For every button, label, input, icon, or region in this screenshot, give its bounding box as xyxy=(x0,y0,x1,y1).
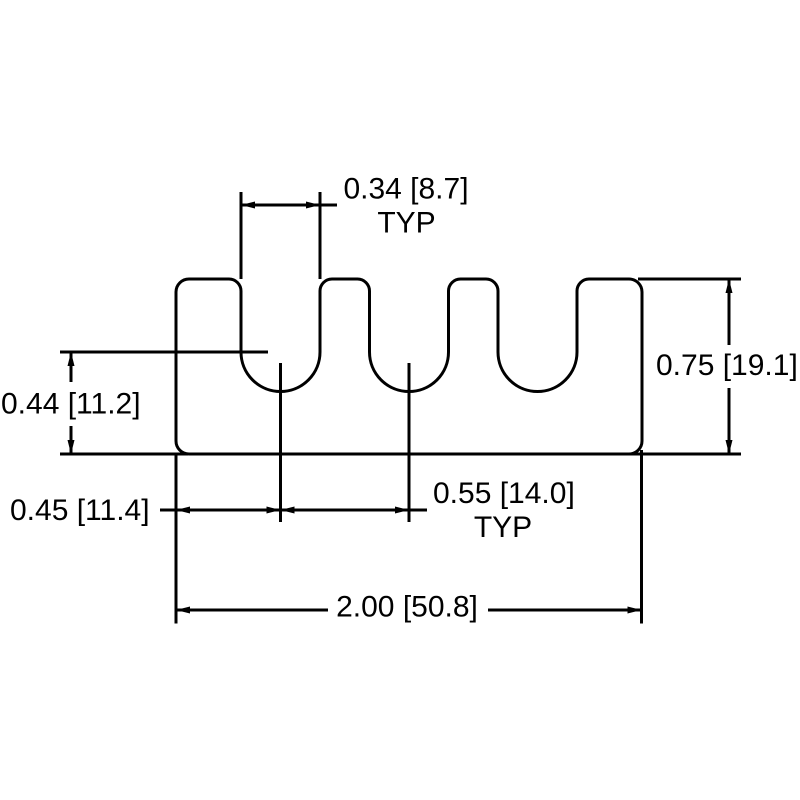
dim 0.75 value text xyxy=(656,349,798,382)
dim 0.44 reference line top (slot depth line) xyxy=(60,351,268,354)
dim 0.75 arrow down xyxy=(726,440,733,454)
dim 2.00 arrow left xyxy=(176,607,190,614)
dim 2.00 extension line right xyxy=(640,450,643,624)
svg-text:0.75 [19.1]: 0.75 [19.1] xyxy=(656,349,798,382)
dim 0.44 dimension line lower segment xyxy=(70,426,73,454)
dim 0.44 reference line bottom xyxy=(60,453,188,456)
part outline: comb spacer with three U slots xyxy=(176,279,642,454)
dim 0.34 value text xyxy=(343,173,468,206)
dim 0.44 dimension line upper segment xyxy=(70,352,73,382)
dim 0.75 arrow up xyxy=(726,279,733,293)
dim 0.45 value text xyxy=(10,494,150,527)
svg-text:0.45 [11.4]: 0.45 [11.4] xyxy=(10,494,150,527)
dim 0.44 arrow up xyxy=(68,352,75,366)
dim 0.55 arrow left xyxy=(281,507,295,514)
svg-text:0.34 [8.7]: 0.34 [8.7] xyxy=(343,173,468,206)
dim 0.75 dimension line lower segment xyxy=(728,388,731,454)
dim 0.45 arrow left xyxy=(176,507,190,514)
dim 2.00 dimension line right segment xyxy=(488,609,642,612)
dim 0.34 TYP text xyxy=(377,207,435,240)
dim 0.75 extension line bottom xyxy=(629,453,741,456)
svg-text:0.44 [11.2]: 0.44 [11.2] xyxy=(1,388,141,421)
dim 0.34 arrow right xyxy=(306,202,320,209)
dim 2.00 arrow right xyxy=(628,607,642,614)
dim 0.44 arrow down xyxy=(68,440,75,454)
dim 0.75 dimension line upper segment xyxy=(728,279,731,345)
slot1 center extension line xyxy=(279,363,282,522)
dim 0.75 extension line top xyxy=(638,278,741,281)
dim 0.44 value text xyxy=(1,388,141,421)
dim 0.34 arrow left xyxy=(241,202,255,209)
dim 2.00 extension line left xyxy=(175,454,178,624)
dim 0.55 arrow right xyxy=(395,507,409,514)
dim 0.45 / 0.55 shared dimension line xyxy=(160,509,427,512)
svg-text:TYP: TYP xyxy=(474,511,532,544)
dim 2.00 dimension line left segment xyxy=(176,609,328,612)
svg-text:TYP: TYP xyxy=(377,207,435,240)
dim 0.45 arrow right xyxy=(267,507,281,514)
dim 0.55 TYP text xyxy=(474,511,532,544)
dim 0.55 value text xyxy=(433,477,575,510)
dim 0.34 dimension line with tail xyxy=(241,204,337,207)
svg-text:2.00 [50.8]: 2.00 [50.8] xyxy=(336,591,478,624)
dim 2.00 value text xyxy=(336,591,478,624)
svg-text:0.55 [14.0]: 0.55 [14.0] xyxy=(433,477,575,510)
dim 0.34 extension line right (slot1 right wall) xyxy=(319,192,322,279)
slot2 center extension line xyxy=(408,363,411,522)
dim 0.34 extension line left (slot1 left wall) xyxy=(240,192,243,279)
